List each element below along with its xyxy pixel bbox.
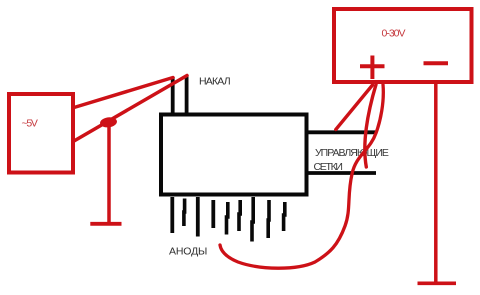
vacuum tube body U1 — [161, 115, 307, 195]
anode pin 2 — [182, 199, 186, 227]
grid pin 2 — [306, 171, 376, 175]
svg-text:АНОДЫ: АНОДЫ — [169, 246, 207, 258]
probe wire down from junction — [107, 124, 111, 223]
grid pin 1 — [306, 130, 377, 134]
power supply 0-30V box — [334, 9, 472, 82]
anode pin 9 — [284, 202, 285, 231]
svg-text:СЕТКИ: СЕТКИ — [314, 161, 343, 173]
svg-text:УПРАВЛЯЮЩИЕ: УПРАВЛЯЮЩИЕ — [315, 147, 389, 159]
wire minus down — [434, 84, 438, 283]
minus terminal of supply — [424, 61, 449, 65]
left probe terminal bar — [90, 222, 121, 226]
junction blob — [99, 116, 117, 128]
wire plus to grid pin 1 — [336, 85, 373, 130]
anode pin 4 — [211, 200, 215, 228]
filament pin 1 — [171, 77, 175, 114]
svg-text:НАКАЛ: НАКАЛ — [199, 76, 231, 88]
anode pin 3 — [196, 197, 200, 237]
wire 5V to filament pin 2 — [74, 76, 187, 142]
plus terminal of supply — [360, 56, 385, 80]
wire plus to anodes (long curve) — [220, 85, 383, 269]
transformer ~5V box — [9, 94, 73, 173]
wire 5V to filament pin 1 — [74, 78, 173, 108]
anode pin 8 — [266, 200, 270, 238]
anode pin 7 — [252, 197, 253, 242]
filament pin 2 — [185, 76, 189, 115]
anode pin 6 — [239, 200, 240, 231]
svg-text:~5V: ~5V — [22, 118, 38, 130]
anode pin 5 — [227, 202, 228, 235]
anode pin 1 — [170, 197, 174, 233]
svg-text:0-30V: 0-30V — [382, 28, 406, 40]
wire plus to grid pin 2 — [365, 85, 376, 168]
right probe terminal bar — [418, 281, 457, 285]
